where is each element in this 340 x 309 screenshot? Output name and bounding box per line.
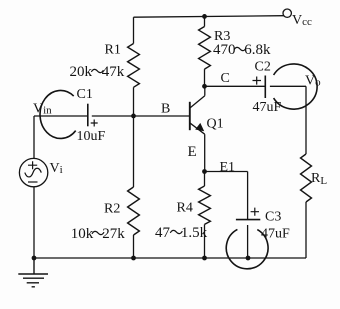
wire C1 to node B and base [92, 115, 190, 117]
transistor Q1 emitter diagonal [190, 123, 205, 134]
wire collector to node C [204, 86, 206, 95]
svg-text:R2: R2 [104, 202, 120, 217]
svg-text:10k: 10k [71, 226, 94, 242]
svg-text:C: C [221, 71, 230, 86]
wire output down to RL [305, 86, 307, 154]
wire R1 top lead [133, 17, 135, 43]
transistor Q1 emitter arrowhead [195, 123, 204, 131]
svg-text:R4: R4 [177, 201, 193, 216]
source Vi plus [28, 161, 37, 169]
svg-text:R1: R1 [105, 43, 121, 58]
ground symbol [18, 258, 48, 287]
wire R2 top lead from node B [133, 116, 135, 187]
annotation circle around Vo [274, 64, 318, 109]
wire E1 to C3 branch [205, 171, 248, 173]
source Vi minus [28, 181, 38, 183]
svg-text:E1: E1 [220, 160, 236, 175]
ground junction dot [32, 256, 37, 261]
wire R1 bottom lead to node B [133, 87, 135, 116]
junction dot C3 bottom rail [246, 256, 251, 261]
resistor RL [301, 154, 312, 202]
wire R3 top lead [204, 16, 206, 26]
capacitor C1 plate [87, 104, 89, 127]
annotation circle around Vin/C1 [40, 90, 76, 138]
source Vi sine wave [25, 168, 42, 177]
svg-text:47k: 47k [102, 64, 125, 80]
label C1 polarity plus [91, 120, 98, 127]
junction dot R2 bottom rail [131, 256, 136, 261]
svg-text:6.8k: 6.8k [244, 42, 271, 58]
svg-text:1.5k: 1.5k [181, 225, 208, 241]
svg-text:47uF: 47uF [261, 227, 290, 242]
label C2 polarity plus [253, 77, 262, 85]
svg-text:470: 470 [213, 42, 236, 58]
svg-text:Vcc: Vcc [292, 13, 312, 28]
wire C2 to output corner [270, 85, 306, 87]
svg-text:27k: 27k [102, 226, 125, 242]
source Vi circle [19, 158, 47, 186]
svg-text:B: B [161, 102, 170, 117]
wire R4 bottom lead [204, 224, 206, 258]
capacitor C3 top plate [236, 219, 260, 221]
wire Vi to ground rail [33, 187, 35, 258]
transistor Q1 base bar [189, 102, 191, 130]
node E1 junction dot [202, 169, 207, 174]
junction dot R4 bottom rail [202, 256, 207, 261]
svg-text:RL: RL [311, 171, 327, 187]
wire top supply rail [134, 16, 284, 18]
svg-text:C3: C3 [265, 210, 281, 225]
wire emitter to node E1 [204, 134, 206, 171]
wire Vin vertical to Vi source [33, 116, 35, 158]
capacitor C2 plate [264, 76, 266, 99]
wire R3 bottom lead to node C [204, 69, 206, 86]
svg-text:Vo: Vo [305, 74, 321, 89]
svg-text:47: 47 [155, 225, 171, 241]
svg-text:C2: C2 [255, 60, 271, 75]
resistor R2 [128, 187, 140, 235]
svg-text:20k: 20k [70, 64, 93, 80]
wire C3 top lead [247, 172, 249, 220]
label C3 polarity plus [251, 208, 259, 216]
svg-text:10uF: 10uF [77, 129, 106, 144]
annotation circle around C3 [226, 229, 268, 268]
resistor R4 [199, 186, 211, 224]
resistor R3 [199, 27, 211, 70]
svg-text:E: E [188, 144, 197, 160]
node B junction dot [131, 114, 136, 119]
wire bottom rail [34, 257, 306, 259]
wire RL bottom lead [305, 202, 307, 258]
junction dot rail to R3 [202, 14, 207, 19]
wire node C to C2 [205, 85, 266, 87]
wire input from Vin corner to C1 [34, 115, 88, 117]
svg-text:C1: C1 [77, 87, 93, 102]
svg-text:Vi: Vi [50, 161, 63, 176]
wire R2 bottom lead [133, 235, 135, 258]
svg-text:Q1: Q1 [207, 117, 224, 132]
node C junction dot [202, 84, 207, 89]
transistor Q1 collector diagonal [190, 96, 205, 108]
wire R4 top lead from E1 [204, 172, 206, 187]
power terminal Vcc (open circle) [283, 9, 291, 17]
resistor R1 [128, 44, 140, 88]
wire C3 bottom lead [247, 225, 249, 258]
